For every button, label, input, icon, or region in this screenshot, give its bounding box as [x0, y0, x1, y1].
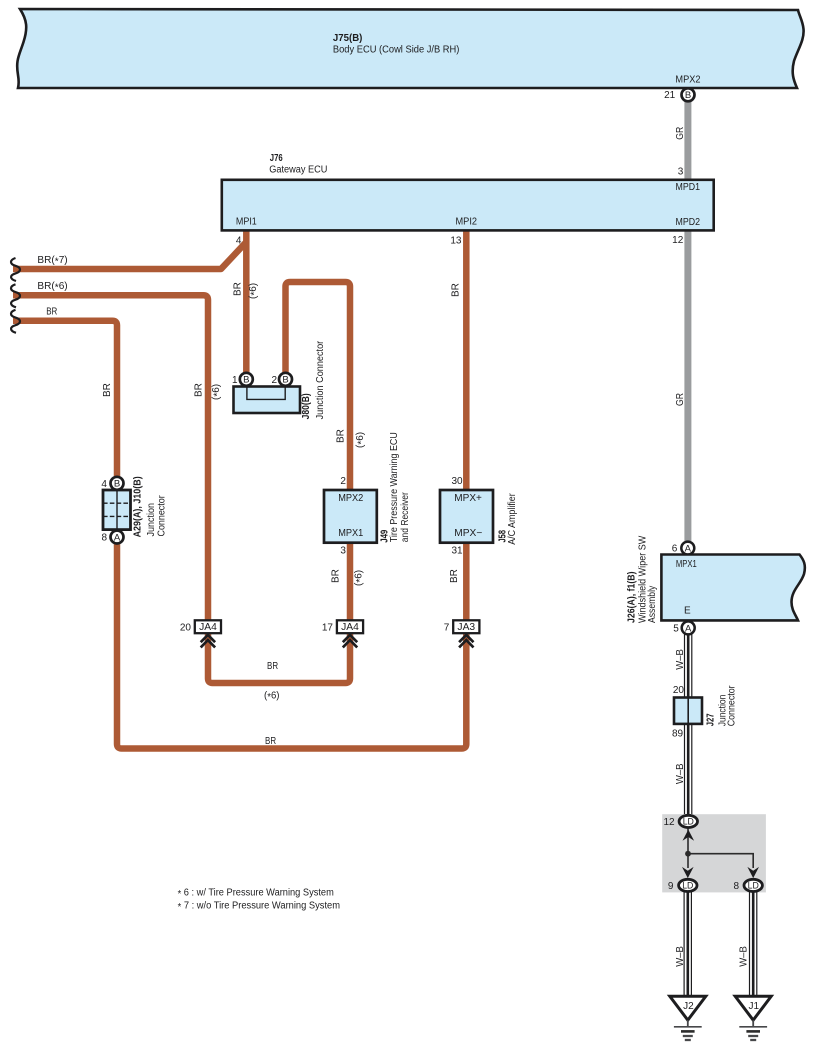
svg-text:* 6 : w/ Tire Pressure Warning: * 6 : w/ Tire Pressure Warning System	[178, 887, 334, 900]
svg-text:BR: BR	[233, 282, 244, 296]
svg-text:89: 89	[672, 729, 684, 740]
svg-text:BR: BR	[267, 661, 278, 672]
svg-text:W–B: W–B	[738, 946, 749, 967]
svg-text:LD: LD	[748, 881, 759, 892]
svg-text:BR: BR	[331, 569, 342, 583]
svg-text:MPX2: MPX2	[675, 74, 701, 85]
svg-text:BR: BR	[194, 383, 205, 397]
svg-text:31: 31	[451, 545, 463, 556]
svg-text:30: 30	[451, 476, 463, 487]
svg-text:BR: BR	[451, 283, 462, 297]
svg-text:J27: J27	[704, 713, 716, 726]
svg-text:J26(A), f1(B): J26(A), f1(B)	[625, 572, 637, 624]
svg-text:MPX−: MPX−	[454, 528, 482, 539]
svg-text:BR(*6): BR(*6)	[37, 281, 67, 294]
svg-text:A: A	[685, 623, 692, 634]
svg-text:Connector: Connector	[157, 495, 168, 537]
svg-text:* 7 : w/o Tire Pressure Warnin: * 7 : w/o Tire Pressure Warning System	[178, 901, 340, 914]
svg-text:Gateway ECU: Gateway ECU	[269, 165, 327, 176]
svg-text:J76: J76	[270, 152, 283, 164]
svg-text:GR: GR	[675, 127, 686, 140]
svg-text:2: 2	[271, 375, 277, 386]
svg-text:B: B	[114, 479, 120, 490]
svg-text:MPD2: MPD2	[676, 217, 701, 228]
svg-text:BR: BR	[46, 307, 57, 318]
svg-text:6: 6	[672, 544, 678, 555]
svg-text:3: 3	[678, 167, 684, 178]
svg-text:3: 3	[340, 545, 346, 556]
svg-text:2: 2	[340, 476, 346, 487]
svg-text:13: 13	[450, 236, 462, 247]
svg-text:8: 8	[734, 881, 740, 892]
svg-text:(*6): (*6)	[248, 283, 261, 299]
svg-text:Junction Connector: Junction Connector	[315, 340, 326, 419]
svg-text:20: 20	[673, 685, 685, 696]
svg-text:9: 9	[668, 881, 674, 892]
svg-text:7: 7	[444, 622, 450, 633]
svg-text:J75(B): J75(B)	[333, 32, 363, 44]
svg-text:J80(B): J80(B)	[300, 393, 312, 419]
svg-text:B: B	[243, 375, 249, 386]
svg-text:Junction: Junction	[146, 503, 157, 537]
svg-text:BR: BR	[265, 736, 276, 747]
svg-text:J1: J1	[749, 1001, 760, 1012]
svg-text:MPI1: MPI1	[236, 217, 257, 228]
svg-text:MPX1: MPX1	[338, 528, 364, 539]
svg-text:W–B: W–B	[675, 946, 686, 967]
svg-text:LD: LD	[682, 881, 693, 892]
svg-text:17: 17	[322, 622, 334, 633]
svg-text:Assembly: Assembly	[647, 586, 658, 623]
svg-text:MPI2: MPI2	[456, 217, 478, 228]
svg-text:J2: J2	[683, 1001, 694, 1012]
svg-text:5: 5	[673, 623, 679, 634]
svg-text:B: B	[282, 375, 288, 386]
svg-text:Tire Pressure Warning ECU: Tire Pressure Warning ECU	[389, 432, 400, 542]
svg-text:MPD1: MPD1	[676, 182, 701, 193]
svg-text:20: 20	[180, 622, 192, 633]
svg-text:and Receiver: and Receiver	[400, 492, 411, 543]
svg-text:W–B: W–B	[675, 763, 686, 784]
svg-text:8: 8	[101, 533, 107, 544]
svg-text:W–B: W–B	[675, 649, 686, 670]
svg-text:BR: BR	[102, 383, 113, 397]
svg-text:(*6): (*6)	[211, 384, 224, 400]
svg-text:JA3: JA3	[457, 622, 475, 633]
svg-text:LD: LD	[683, 817, 694, 828]
svg-text:JA4: JA4	[199, 622, 217, 633]
svg-text:A/C Amplifier: A/C Amplifier	[507, 493, 518, 545]
svg-text:BR: BR	[449, 569, 460, 583]
svg-text:BR: BR	[336, 429, 347, 443]
svg-text:E: E	[684, 605, 691, 616]
svg-text:12: 12	[663, 817, 675, 828]
svg-text:Body ECU (Cowl Side J/B RH): Body ECU (Cowl Side J/B RH)	[333, 44, 460, 55]
svg-text:12: 12	[672, 235, 684, 246]
svg-text:1: 1	[232, 375, 238, 386]
svg-text:MPX+: MPX+	[454, 493, 482, 504]
svg-text:GR: GR	[675, 393, 686, 406]
svg-text:BR(*7): BR(*7)	[37, 255, 67, 268]
svg-text:A: A	[685, 544, 692, 555]
svg-text:4: 4	[101, 479, 107, 490]
svg-text:(*6): (*6)	[264, 690, 280, 703]
svg-text:A: A	[114, 532, 121, 543]
svg-text:B: B	[685, 90, 691, 101]
svg-text:MPX1: MPX1	[676, 559, 697, 570]
svg-text:MPX2: MPX2	[338, 493, 364, 504]
svg-text:(*6): (*6)	[355, 432, 368, 448]
svg-text:Connector: Connector	[727, 685, 738, 726]
svg-text:A29(A), J10(B): A29(A), J10(B)	[132, 476, 144, 537]
svg-text:21: 21	[664, 90, 676, 101]
svg-text:4: 4	[236, 236, 242, 247]
svg-text:(*6): (*6)	[354, 570, 367, 586]
svg-text:JA4: JA4	[341, 622, 359, 633]
